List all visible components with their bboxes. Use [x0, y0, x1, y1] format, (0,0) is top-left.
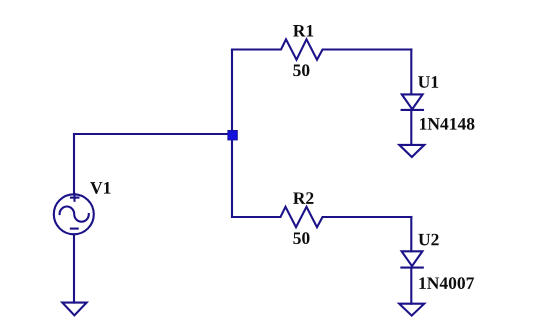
ground under U1 — [399, 145, 424, 157]
wire U1 cathode to ground — [410, 110, 412, 145]
value label 50 of R1 — [293, 64, 309, 76]
ground under V1 — [62, 303, 86, 316]
label U2 — [418, 234, 438, 246]
value label 1N4148 — [420, 118, 474, 130]
value label 50 of R2 — [293, 232, 309, 244]
diode U1 (1N4148) — [402, 94, 423, 110]
voltage source V1 body (AC sine source) — [54, 194, 94, 234]
V1 plus polarity mark — [71, 194, 79, 201]
ground under U2 — [399, 304, 424, 316]
wire U2 anode from bottom rail — [410, 217, 412, 251]
value label 1N4007 — [419, 277, 474, 289]
wire V1 minus terminal to ground — [73, 234, 75, 302]
V1 minus polarity mark — [71, 228, 78, 230]
label V1 — [90, 182, 110, 194]
label R2 — [293, 192, 313, 204]
wire top rail with resistor R1 body — [232, 39, 411, 59]
label R1 — [293, 25, 313, 37]
wire bottom rail with resistor R2 body — [232, 207, 411, 227]
wire U2 cathode to ground — [410, 268, 412, 304]
label U1 — [418, 76, 438, 88]
wire V1 to junction horizontal — [74, 133, 232, 135]
junction node square — [228, 131, 237, 140]
wire V1 plus terminal vertical — [73, 134, 75, 194]
wire U1 anode from top rail — [410, 50, 412, 95]
wire junction vertical (node N001) — [231, 50, 233, 218]
diode U2 (1N4007) — [401, 251, 422, 267]
